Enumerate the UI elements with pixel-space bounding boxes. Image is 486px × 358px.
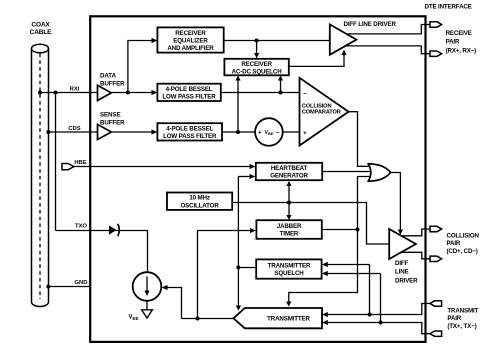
node TX+ tap (368, 313, 372, 317)
svg-text:COMPARATOR: COMPARATOR (302, 110, 341, 116)
svg-text:COLLISION: COLLISION (447, 233, 480, 240)
svg-text:PAIR: PAIR (447, 315, 461, 322)
svg-text:GND: GND (75, 280, 88, 286)
wire RX+ output (346, 25, 430, 34)
wire comparator output to OR gate input 1 (349, 112, 373, 167)
block U1 receiver equalizer and amplifier (157, 27, 223, 52)
svg-text:DRIVER: DRIVER (395, 277, 418, 284)
pin arrow into receiver equalizer (152, 38, 158, 43)
pin arrow up into squelch bottom (right) (278, 76, 283, 81)
svg-text:TRANSMIT: TRANSMIT (447, 308, 478, 315)
wire TX+ line from connector to transmitter (326, 304, 431, 315)
node RXI/TXO junction (54, 91, 58, 95)
pin arrow into heartbeat generator input 1 (250, 164, 256, 169)
svg-text:DATA: DATA (100, 73, 116, 80)
svg-text:DIFF: DIFF (395, 260, 409, 267)
svg-text:OSCILLATOR: OSCILLATOR (181, 202, 220, 209)
wire transmitter drive line to current source (182, 318, 234, 320)
label COLLISION PAIR (CD+, CD-) (447, 233, 480, 255)
svg-text:COAX: COAX (31, 22, 50, 29)
wire jabber output down to transmitter disable (289, 230, 358, 304)
connector TX+ (pointing left) (430, 301, 442, 306)
block F2 4-pole bessel low pass filter (sense) (157, 123, 222, 140)
svg-text:HEARTBEAT: HEARTBEAT (271, 165, 308, 172)
wire VBE to comparator plus (283, 131, 300, 133)
node bessel2/squelch tap (236, 130, 240, 134)
svg-text:TXO: TXO (75, 224, 87, 230)
node bessel1/squelch tap (279, 91, 283, 95)
node data buffer output junction (126, 91, 130, 95)
wire drop into receiver squelch top (256, 41, 258, 56)
connector HBE (plug pointing right) (62, 164, 74, 170)
wire HBE to heartbeat generator (74, 166, 252, 168)
op-amp collision comparator (300, 78, 349, 146)
svg-text:SENSE: SENSE (100, 112, 120, 119)
wire transmitter squelch output to left riser (238, 267, 256, 269)
coax cable cylinder (32, 44, 49, 306)
wire vertical RXI to TXO (55, 93, 57, 231)
svg-text:(RX+, RX−): (RX+, RX−) (446, 47, 477, 54)
chip outline block (90, 16, 425, 342)
svg-text:4-POLE BESSEL: 4-POLE BESSEL (166, 86, 213, 93)
wire GND from coax to block edge (48, 286, 90, 288)
op-amp diff line driver 2 (collision) (389, 229, 416, 259)
wire jabber timer input from transmitter drive line (198, 231, 253, 319)
op-amp diff line driver 1 (receive) (330, 24, 357, 54)
svg-text:DIFF LINE DRIVER: DIFF LINE DRIVER (344, 21, 397, 28)
wire data buffer output to bessel filter 1 (111, 92, 154, 94)
connector RX- (430, 51, 442, 56)
connector TX- (pointing left) (430, 331, 442, 336)
svg-text:RECEIVER: RECEIVER (175, 30, 206, 37)
wire TXO horizontal to diode and corner (56, 231, 148, 272)
wire drive line corner up to current source control (165, 288, 182, 319)
label DIFF LINE DRIVER (collision) (395, 260, 418, 284)
pin arrow down into transmitter top (286, 302, 291, 307)
svg-text:RXI: RXI (70, 87, 80, 93)
gate OR collision (368, 164, 390, 181)
wire oscillator output to collision diff line driver input (232, 203, 389, 245)
svg-text:PAIR: PAIR (446, 39, 460, 46)
svg-text:TRANSMITTER: TRANSMITTER (267, 316, 310, 323)
ground VEE symbol (142, 301, 153, 318)
block U4 10 MHz oscillator (167, 193, 232, 210)
svg-text:+: + (258, 130, 262, 136)
label SENSE BUFFER (100, 112, 125, 127)
svg-text:CABLE: CABLE (30, 29, 53, 36)
svg-text:VEE: VEE (129, 315, 139, 322)
svg-text:LOW PASS FILTER: LOW PASS FILTER (162, 93, 216, 100)
node TX- tap (379, 321, 383, 325)
pin arrow into jabber timer (250, 228, 256, 233)
wire riser TX+ to squelch (369, 265, 371, 315)
wire bessel2 output to VBE source (222, 131, 255, 133)
wire squelch output to driver enable (289, 53, 344, 66)
svg-text:TIMER: TIMER (280, 231, 299, 238)
node jabber output junction (356, 228, 360, 232)
wire bessel1 output to collision comparator minus (221, 92, 300, 94)
pin arrow down into squelch top (254, 53, 259, 58)
label TRANSMIT PAIR (TX+, TX-) (447, 308, 478, 330)
pin arrow into bessel filter 2 (152, 129, 158, 134)
svg-text:COLLISION: COLLISION (302, 103, 332, 109)
node oscillator clock tap (287, 201, 291, 205)
wire jabber output up to OR gate input 3 (358, 177, 373, 230)
svg-text:RECEIVE: RECEIVE (446, 30, 472, 37)
wire sense buffer output to bessel filter 2 (111, 131, 154, 133)
connector RX+ (430, 22, 442, 27)
wire TX- line from connector to transmitter (326, 323, 431, 334)
wire up into squelch bottom left (237, 78, 239, 132)
block U5 jabber timer (256, 220, 321, 239)
svg-text:(CD+, CD−): (CD+, CD−) (447, 248, 478, 255)
node squelch top tap (255, 39, 259, 43)
svg-text:TRANSMITTER: TRANSMITTER (268, 262, 311, 269)
svg-text:10 MHz: 10 MHz (189, 195, 209, 202)
svg-text:DTE INTERFACE: DTE INTERFACE (425, 4, 472, 11)
svg-text:CDS: CDS (68, 126, 80, 132)
svg-text:4-POLE BESSEL: 4-POLE BESSEL (166, 125, 213, 132)
svg-text:AC-DC SQUELCH: AC-DC SQUELCH (232, 68, 283, 75)
svg-text:−: − (276, 130, 280, 136)
wire RX- output (345, 46, 430, 54)
wire RXI from coax to data buffer (40, 92, 98, 94)
wire clock to heartbeat generator (arrow up) and jabber timer (arrow down) (288, 185, 290, 217)
block F1 4-pole bessel low pass filter (receive) (157, 84, 220, 101)
wire riser TX- to squelch (380, 274, 382, 323)
pin arrow into heartbeat generator input 2 (250, 174, 256, 179)
pin arrow into current source (162, 285, 168, 290)
wire TX- into transmitter squelch input 2 (326, 273, 381, 275)
svg-text:SQUELCH: SQUELCH (274, 270, 304, 277)
wire CD+ output (401, 229, 430, 236)
node RXI tap on coax (38, 91, 42, 95)
connector CD- (430, 256, 442, 261)
svg-text:EQUALIZER: EQUALIZER (173, 38, 208, 45)
node GND tap on coax (46, 285, 50, 289)
wire heartbeat input 2 from transmitter squelch output riser (238, 176, 252, 178)
wire riser to receiver equalizer (128, 41, 155, 93)
pin arrow down into transmitter left slope (236, 306, 241, 311)
buffer sense (triangle) (98, 124, 112, 139)
svg-text:(TX+, TX−): (TX+, TX−) (447, 323, 476, 330)
wire TX+ into transmitter squelch input 1 (326, 264, 370, 266)
svg-text:HBE: HBE (74, 160, 86, 166)
node CDS tap on coax (46, 130, 50, 134)
source I1 transmit current source (133, 272, 162, 301)
svg-text:BUFFER: BUFFER (100, 80, 125, 87)
svg-text:JABBER: JABBER (277, 223, 302, 230)
source VBE reference (255, 118, 283, 146)
pin arrow up into diff line driver 1 (341, 50, 346, 55)
svg-text:LOW PASS FILTER: LOW PASS FILTER (163, 133, 217, 140)
svg-text:RECEIVER: RECEIVER (241, 61, 272, 68)
svg-text:−: − (303, 90, 307, 97)
label COAX CABLE (30, 22, 53, 37)
block U2 receiver AC-DC squelch (224, 59, 288, 76)
svg-text:PAIR: PAIR (447, 240, 461, 247)
block U3 heartbeat generator (256, 163, 322, 180)
wire equalizer output to diff line driver 1 (224, 40, 330, 42)
label RECEIVE PAIR (RX+, RX-) (446, 30, 477, 54)
block U7 transmitter (pentagon) (233, 308, 322, 328)
pin arrow up into squelch bottom (left) (235, 76, 240, 81)
wire CD- output (401, 252, 430, 258)
svg-text:+: + (303, 130, 307, 137)
svg-text:LINE: LINE (395, 269, 409, 276)
node jabber tap on drive line (196, 317, 200, 321)
pin arrow into bessel filter 1 (152, 90, 158, 95)
wire up into squelch bottom right (280, 78, 282, 93)
diode D1 in TXO path (109, 224, 119, 236)
wire riser squelch output up to heartbeat / down to transmitter (237, 177, 239, 308)
wire OR output to collision driver enable (390, 173, 400, 232)
wire CDS from coax to sense buffer (48, 131, 97, 133)
wire jabber timer output (322, 229, 358, 231)
svg-text:AND AMPLIFIER: AND AMPLIFIER (167, 45, 214, 52)
pin arrow down into diff line driver 2 (398, 230, 403, 235)
svg-text:BUFFER: BUFFER (100, 119, 125, 126)
svg-text:GENERATOR: GENERATOR (270, 173, 308, 180)
node squelch output junction (236, 266, 240, 270)
block U6 transmitter squelch (256, 259, 321, 278)
buffer data (triangle) (98, 85, 112, 100)
label DATA BUFFER (100, 73, 125, 88)
wire heartbeat output to OR gate input 2 (322, 171, 373, 173)
connector CD+ (430, 226, 442, 231)
